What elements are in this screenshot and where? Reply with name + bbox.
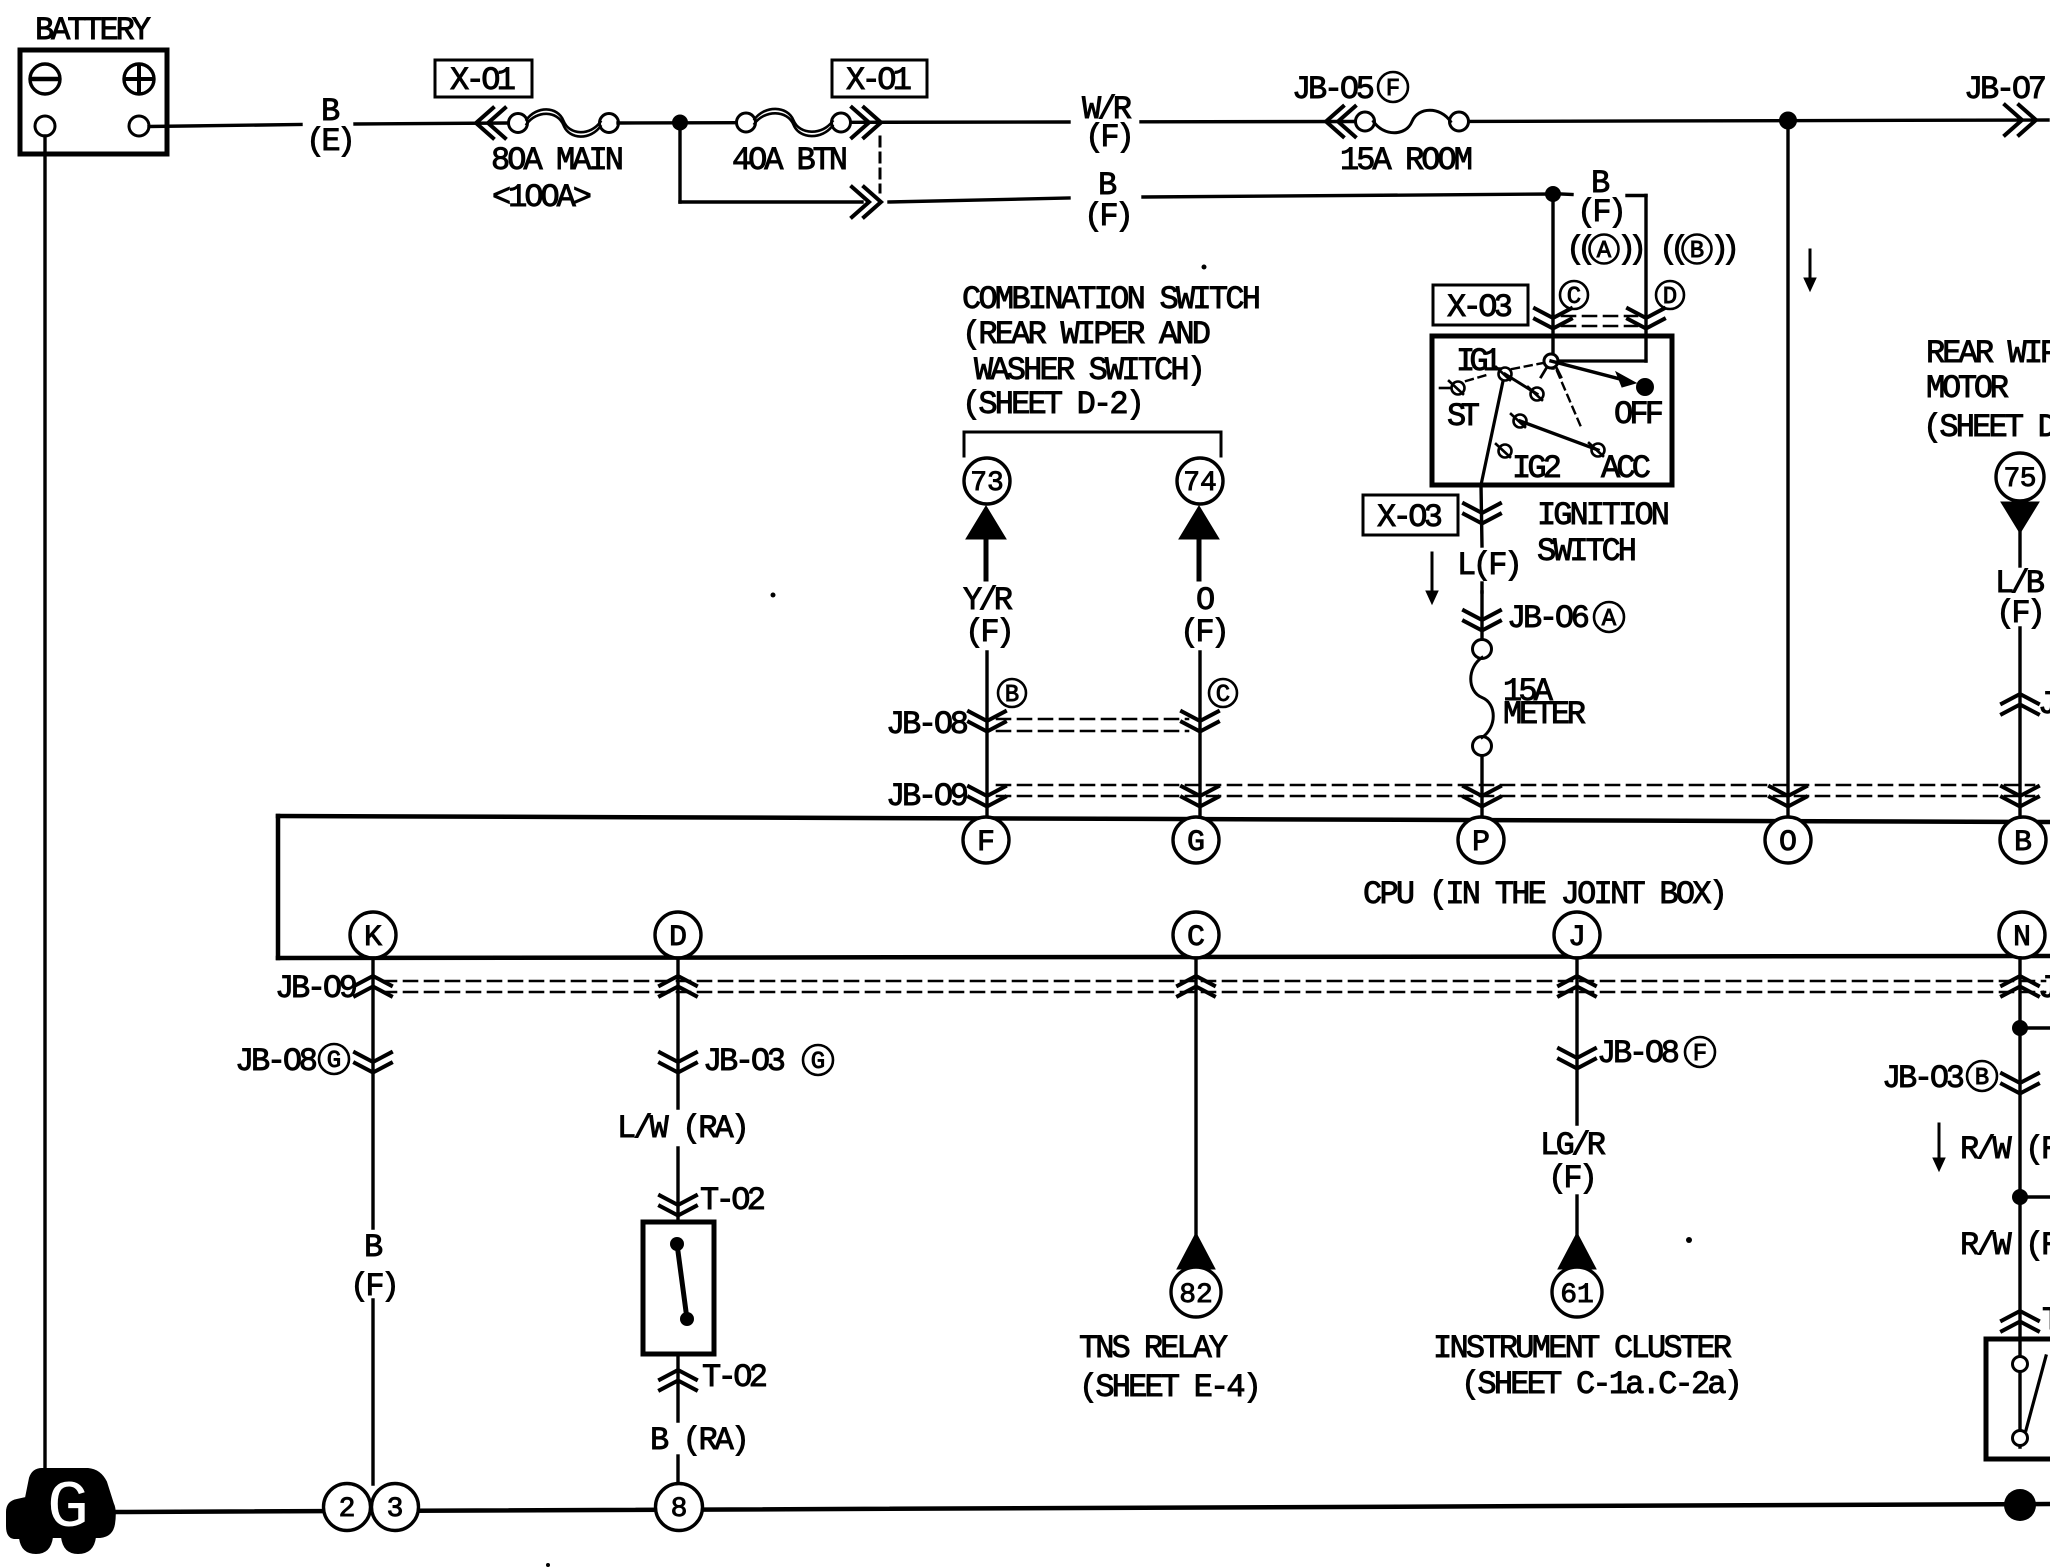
svg-text:K: K [364, 921, 382, 955]
svg-text:82: 82 [1179, 1280, 1213, 1311]
svg-text:METER: METER [1503, 696, 1586, 733]
svg-text:B: B [1690, 238, 1704, 265]
svg-text:(F): (F) [1180, 614, 1230, 651]
svg-text:(F): (F) [1085, 119, 1135, 156]
svg-text:(E): (E) [306, 123, 356, 160]
svg-text:P: P [1472, 826, 1490, 860]
svg-text:G: G [327, 1048, 341, 1075]
svg-text:C: C [1216, 682, 1230, 709]
svg-text:A: A [1602, 606, 1617, 633]
svg-text:L(F): L(F) [1457, 547, 1523, 584]
svg-text:(F): (F) [965, 614, 1015, 651]
svg-text:(F): (F) [350, 1268, 400, 1305]
svg-text:JB-O3: JB-O3 [1882, 1060, 1965, 1097]
svg-text:INSTRUMENT CLUSTER: INSTRUMENT CLUSTER [1433, 1330, 1732, 1367]
svg-text:JB-O8: JB-O8 [1597, 1035, 1680, 1072]
svg-text:JB-O8: JB-O8 [235, 1043, 318, 1080]
svg-text:X-O3: X-O3 [1447, 289, 1513, 326]
svg-text:IG2: IG2 [1512, 450, 1562, 487]
svg-text:JB-O9: JB-O9 [886, 778, 969, 815]
svg-text:F: F [1693, 1041, 1707, 1068]
svg-text:JB-O3: JB-O3 [703, 1043, 786, 1080]
svg-text:<1OOA>: <1OOA> [492, 179, 592, 216]
svg-text:ACC: ACC [1601, 450, 1651, 487]
svg-text:(SHEET D-2): (SHEET D-2) [962, 386, 1145, 423]
svg-text:WASHER SWITCH): WASHER SWITCH) [974, 352, 1206, 389]
svg-text:SWITCH: SWITCH [1537, 533, 1637, 570]
svg-text:LG/R: LG/R [1540, 1127, 1606, 1164]
svg-text:15A ROOM: 15A ROOM [1340, 142, 1473, 179]
svg-text:C: C [1567, 284, 1581, 311]
svg-text:4OA BTN: 4OA BTN [732, 142, 848, 179]
svg-text:(SHEET E-4): (SHEET E-4) [1079, 1369, 1262, 1406]
svg-text:(REAR WIPER AND: (REAR WIPER AND [962, 316, 1211, 353]
svg-text:(SHEET C-1a.C-2a): (SHEET C-1a.C-2a) [1461, 1366, 1743, 1403]
svg-text:): ) [1628, 231, 1647, 268]
svg-text:J: J [2038, 686, 2050, 723]
svg-text:X-O3: X-O3 [1377, 499, 1443, 536]
svg-text:CPU (IN THE JOINT BOX): CPU (IN THE JOINT BOX) [1363, 876, 1728, 913]
svg-text:JB-O6: JB-O6 [1507, 600, 1590, 637]
svg-text:J: J [1568, 921, 1586, 955]
svg-text:B: B [2014, 826, 2032, 860]
svg-text:N: N [2013, 921, 2031, 955]
svg-text:F: F [1386, 76, 1400, 103]
svg-text:JB-O7: JB-O7 [1964, 71, 2047, 108]
svg-text:TNS RELAY: TNS RELAY [1079, 1330, 1228, 1367]
svg-text:B: B [1005, 682, 1019, 709]
svg-text:8OA MAIN: 8OA MAIN [491, 142, 624, 179]
svg-text:3: 3 [387, 1494, 404, 1525]
svg-text:X-O1: X-O1 [846, 62, 912, 99]
svg-text:IGNITION: IGNITION [1537, 497, 1670, 534]
svg-text:G: G [47, 1471, 89, 1546]
svg-text:REAR WIPER: REAR WIPER [1926, 335, 2050, 372]
svg-text:X-O1: X-O1 [450, 62, 516, 99]
svg-text:JB-O8: JB-O8 [886, 706, 969, 743]
svg-text:OFF: OFF [1614, 396, 1664, 433]
svg-text:L/W (RA): L/W (RA) [617, 1110, 750, 1147]
svg-text:R/W (RA): R/W (RA) [1960, 1131, 2050, 1168]
svg-text:(F): (F) [1548, 1160, 1598, 1197]
svg-text:2: 2 [339, 1494, 356, 1525]
svg-text:A: A [1597, 238, 1612, 265]
svg-text:B: B [364, 1229, 383, 1266]
svg-text:73: 73 [970, 468, 1004, 499]
svg-text:G: G [1187, 826, 1205, 860]
svg-text:61: 61 [1560, 1280, 1594, 1311]
svg-text:8: 8 [671, 1494, 688, 1525]
svg-text:J: J [2038, 970, 2050, 1007]
svg-text:ST: ST [1447, 398, 1480, 435]
svg-text:IG1: IG1 [1456, 343, 1502, 380]
svg-text:JB-O5: JB-O5 [1292, 71, 1375, 108]
svg-text:T-O2: T-O2 [700, 1182, 766, 1219]
svg-text:(F): (F) [1577, 194, 1627, 231]
svg-text:COMBINATION SWITCH: COMBINATION SWITCH [962, 281, 1261, 318]
svg-text:MOTOR: MOTOR [1926, 370, 2009, 407]
svg-text:75: 75 [2004, 464, 2037, 495]
svg-text:(F): (F) [1084, 198, 1134, 235]
svg-text:BATTERY: BATTERY [35, 12, 151, 49]
svg-text:D: D [669, 921, 687, 955]
svg-text:B (RA): B (RA) [650, 1422, 750, 1459]
svg-text:R/W (RA): R/W (RA) [1960, 1227, 2050, 1264]
svg-text:C: C [1187, 921, 1205, 955]
svg-text:74: 74 [1183, 468, 1217, 499]
svg-text:B: B [1975, 1065, 1989, 1092]
svg-text:T-O2: T-O2 [702, 1359, 768, 1396]
svg-text:G: G [811, 1049, 825, 1076]
svg-text:(SHEET D-2): (SHEET D-2) [1923, 409, 2050, 446]
svg-text:T-O2: T-O2 [2042, 1302, 2050, 1339]
svg-text:JB-O9: JB-O9 [275, 970, 358, 1007]
svg-text:): ) [1721, 231, 1740, 268]
svg-text:O: O [1779, 826, 1797, 860]
svg-text:F: F [977, 826, 995, 860]
